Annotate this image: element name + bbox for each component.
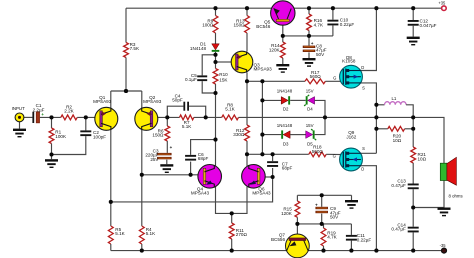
wire D2 to D4 <box>290 99 306 101</box>
wire R9 top lead <box>215 8 217 15</box>
wire Q2 emitter stub <box>141 91 143 108</box>
diode D1 1N4148 <box>212 44 220 52</box>
svg-text:K1058: K1058 <box>342 59 356 64</box>
svg-text:4.7K: 4.7K <box>327 235 337 240</box>
svg-text:5.1K: 5.1K <box>146 231 156 236</box>
svg-text:150Ω: 150Ω <box>233 23 245 28</box>
polarity mark C1 <box>41 112 44 117</box>
node -35 rail/C11 <box>349 249 353 253</box>
svg-text:MPSA43: MPSA43 <box>191 191 210 196</box>
svg-text:1N4148: 1N4148 <box>190 46 207 51</box>
wire R14 leads <box>282 36 284 64</box>
wire R20 right lead <box>405 128 414 130</box>
resistor R1 100K <box>49 128 54 144</box>
wire R20 left lead <box>376 128 387 130</box>
node -35 rail/R4 <box>140 249 144 253</box>
svg-text:120K: 120K <box>269 47 281 52</box>
svg-text:D: D <box>361 167 364 172</box>
wire VAS column middle <box>215 84 217 140</box>
node -35 rail/R11 <box>230 249 234 253</box>
wire Q9 drain <box>346 166 377 251</box>
svg-text:50V: 50V <box>316 52 325 57</box>
svg-text:100K: 100K <box>55 134 67 139</box>
transistor Q6 MPSA43 <box>242 165 266 189</box>
resistor R4 5.1K <box>139 226 144 244</box>
node C9 bottom/R19 <box>320 222 324 226</box>
node output/L1 left <box>374 103 378 107</box>
wire R11 to bottom rail <box>231 239 233 251</box>
node -35 rail/C14 <box>411 249 415 253</box>
wire R21 to C13 <box>412 163 414 184</box>
node D1/Q3 base <box>213 60 217 64</box>
resistor R21 10 ohm <box>411 147 416 163</box>
mosfet Q9 J162 <box>340 148 363 171</box>
wire R5 to bottom rail <box>110 244 112 251</box>
wire C9 bottom lead <box>321 214 323 224</box>
wire R19 to bottom rail <box>323 246 325 251</box>
label Q8 pin S <box>362 85 365 90</box>
wire diode string column <box>261 81 263 154</box>
wire Q4 base row <box>142 174 199 176</box>
label D4 <box>307 106 313 111</box>
svg-text:+35: +35 <box>438 1 446 6</box>
wire C12 ground stub <box>412 26 414 37</box>
transistor Q1 MPSA93 <box>95 107 118 130</box>
node R15/Q7 base <box>295 222 299 226</box>
wire output net horizontal <box>239 116 414 118</box>
capacitor C12 0.047uF <box>408 20 419 26</box>
wire R3 bottom to tail node <box>125 58 127 92</box>
svg-text:D4: D4 <box>307 106 313 111</box>
wire R13 top lead <box>246 8 248 15</box>
svg-text:15V: 15V <box>306 123 314 128</box>
svg-text:D: D <box>361 65 364 70</box>
wire Q7 base row <box>297 223 351 225</box>
capacitor C10 0.22uF <box>327 20 338 26</box>
svg-text:INPUT: INPUT <box>12 106 25 111</box>
node Q1 base/C2 <box>84 115 88 119</box>
resistor R3 7.5K <box>124 43 129 58</box>
svg-text:10Ω: 10Ω <box>418 156 427 161</box>
svg-text:68pF: 68pF <box>198 156 209 161</box>
node output/L1-R20/speaker <box>411 115 415 119</box>
svg-text:270Ω: 270Ω <box>236 232 248 237</box>
resistor R8 5.1K <box>222 115 239 120</box>
label Q9 pin S <box>362 146 365 151</box>
label R14 value <box>269 43 281 52</box>
node Q5 base/R14 <box>281 34 285 38</box>
label R17 value <box>310 70 322 79</box>
wire bias ground row <box>297 194 351 196</box>
wire R19 top lead <box>323 224 325 228</box>
label R1 value <box>55 130 67 139</box>
svg-text:330Ω: 330Ω <box>233 132 245 137</box>
svg-text:15V: 15V <box>306 89 314 94</box>
node D1/C5 top <box>213 53 217 57</box>
wire R6 top lead <box>166 117 168 126</box>
wire speaker feed <box>413 117 444 163</box>
node rail-Q8 drain <box>374 6 378 10</box>
node rail-R13 <box>245 6 249 10</box>
resistor R13 150 ohm <box>245 16 250 34</box>
capacitor C14 0.47uF <box>408 227 419 233</box>
diode D3 1N4148 <box>281 130 290 138</box>
node C5/R10 bottom <box>213 91 217 95</box>
wire C14 to bottom rail <box>412 232 414 250</box>
capacitor C6 68pF <box>185 155 196 161</box>
wire R11 top lead <box>231 213 233 223</box>
wire D5 row right <box>315 117 325 134</box>
node Q2 collector/Q4 base <box>140 173 144 177</box>
wire D4 row right <box>315 100 325 117</box>
wire D3 row left <box>262 134 281 136</box>
label R4 value <box>146 227 156 236</box>
svg-text:2.2µF: 2.2µF <box>33 107 45 112</box>
wire C5 branch bottom <box>202 81 215 93</box>
label R8 value <box>225 102 235 111</box>
svg-text:560Ω: 560Ω <box>312 149 324 154</box>
wire L1 right lead <box>406 105 413 147</box>
resistor R2 2.2K <box>61 115 77 120</box>
node tail R3/Q1/Q2 emitters <box>124 89 128 93</box>
label 8 ohms <box>449 193 463 198</box>
wire C1 to R2 node <box>40 116 61 118</box>
ground below C3 <box>160 164 173 173</box>
wire L1 left lead <box>376 104 384 106</box>
wire R15 bottom lead <box>296 217 298 224</box>
label C13 value <box>391 179 406 188</box>
label Q1 <box>93 95 112 104</box>
capacitor C1 2.2uF <box>32 112 40 124</box>
wire ground stub below R1 node <box>51 155 53 160</box>
wire Q2 collector column <box>141 129 143 226</box>
svg-text:7.5K: 7.5K <box>130 46 140 51</box>
wire input jack ground stub <box>19 122 21 129</box>
resistor R12 330 ohm <box>245 125 250 141</box>
svg-text:J162: J162 <box>346 134 356 139</box>
label D5 <box>307 142 313 147</box>
svg-text:+: + <box>315 202 318 207</box>
wire C7 top lead <box>272 154 274 161</box>
wire D1 cathode down VAS column <box>215 52 217 69</box>
label C1 value <box>33 103 45 112</box>
resistor R17 560 ohm <box>305 79 325 84</box>
node Q4-Q6 emitters/R11 <box>230 211 234 215</box>
svg-text:D3: D3 <box>283 142 289 147</box>
svg-text:G: G <box>333 76 336 81</box>
wire R9 to D1 <box>215 33 217 44</box>
resistor R7 5.1K <box>180 115 194 120</box>
zener D4 15V <box>304 95 315 106</box>
label D2 <box>283 106 289 111</box>
wire R12 to lower gate row <box>246 141 248 154</box>
label R20 value <box>393 134 402 144</box>
svg-text:-35: -35 <box>440 243 447 248</box>
wire R7 to R8 <box>194 116 222 118</box>
svg-text:100Ω: 100Ω <box>202 23 214 28</box>
polarity mark C3 <box>170 145 173 150</box>
svg-text:100pF: 100pF <box>93 135 106 140</box>
wire Q3 base <box>216 61 232 63</box>
svg-text:0.047µF: 0.047µF <box>420 23 437 28</box>
svg-text:G: G <box>333 153 336 158</box>
svg-text:BC556: BC556 <box>271 237 285 242</box>
ground below R1 <box>45 159 58 168</box>
label 1N4148 row2 <box>277 123 293 128</box>
wire C8 top lead <box>308 36 310 46</box>
wire VAS column to Q4 collector <box>215 140 217 166</box>
transistor Q4 MPSA43 <box>198 165 222 189</box>
node rail-R9 <box>213 6 217 10</box>
wire C8 to ground <box>308 52 310 58</box>
terminal -35 <box>442 248 447 253</box>
node C7 top/R18 row <box>271 152 275 156</box>
wire C10 bottom lead <box>332 25 334 36</box>
label 1N4148 row1 <box>277 89 293 94</box>
wire Q8 drain <box>346 8 377 70</box>
svg-text:MPSA43: MPSA43 <box>252 191 271 196</box>
label Q3 <box>254 62 273 71</box>
label Q8 pin D <box>361 65 364 70</box>
wire C3 to ground <box>166 160 168 165</box>
wire C9 top lead <box>321 195 323 207</box>
label D3 <box>283 142 289 147</box>
svg-text:+: + <box>311 41 314 46</box>
wire C7 bottom lead <box>272 168 274 177</box>
wire lower gate row to R18 <box>247 153 309 155</box>
svg-text:5.1K: 5.1K <box>115 231 125 236</box>
label R21 value <box>418 152 427 161</box>
input jack terminal <box>15 113 24 122</box>
diode D2 1N4148 <box>281 96 290 104</box>
wire R16 top lead <box>308 8 310 14</box>
label C2 value <box>93 130 106 139</box>
wire R1 column <box>51 117 53 128</box>
label Q9 <box>346 130 356 139</box>
svg-text:0.22µF: 0.22µF <box>340 22 355 27</box>
wire R6 to C3 <box>166 141 168 153</box>
node output/MOSFET sources <box>374 115 378 119</box>
wire C10 top lead <box>332 8 334 20</box>
svg-text:S: S <box>362 146 365 151</box>
node C6 bottom/Q4 base row <box>189 173 193 177</box>
wire ground row stub <box>351 195 353 200</box>
svg-text:MPSA93: MPSA93 <box>254 67 273 72</box>
capacitor C7 68pF <box>267 161 278 167</box>
node Q6 base/C7 bottom <box>271 175 275 179</box>
svg-text:560Ω: 560Ω <box>310 74 322 79</box>
svg-text:150Ω: 150Ω <box>152 133 164 138</box>
svg-text:L1: L1 <box>391 96 396 101</box>
node R16/C10/C8 <box>307 34 311 38</box>
wire R3 top lead from rail corner <box>125 8 127 42</box>
wire C11 top lead <box>350 224 352 235</box>
ground below input jack <box>13 129 26 138</box>
wire Q5 base lead <box>282 21 284 36</box>
svg-text:1N4148: 1N4148 <box>277 123 293 128</box>
label Q8 <box>342 55 356 64</box>
label Q4 <box>191 186 210 195</box>
node ground row/C9 top <box>320 193 324 197</box>
label R13 value <box>233 18 245 27</box>
wire C11 to bottom rail <box>350 241 352 251</box>
wire C6 bottom lead <box>190 162 192 175</box>
inductor L1 <box>385 102 407 105</box>
label INPUT <box>12 106 25 111</box>
label R10 value <box>219 72 228 82</box>
node rail-C12 <box>411 6 415 10</box>
label R12 value <box>233 128 245 137</box>
wire VAS column to R12 <box>246 81 248 125</box>
speaker 8 ohms <box>440 157 456 185</box>
node feedback R7/C4/R8 <box>204 115 208 119</box>
resistor R16 4.7K <box>307 14 312 31</box>
label 15V row2 <box>306 123 314 128</box>
node rail-R16 <box>307 6 311 10</box>
wire D3 to D5 <box>290 134 306 136</box>
resistor R19 4.7K <box>321 228 326 246</box>
label R5 value <box>115 227 125 236</box>
label Q9 pin G <box>333 153 336 158</box>
resistor R14 120K <box>280 42 285 58</box>
svg-text:5.1K: 5.1K <box>182 124 192 129</box>
svg-text:2.2K: 2.2K <box>64 109 74 114</box>
wire R17 to Q8 gate <box>325 80 343 82</box>
label R6 value <box>152 128 164 137</box>
node rail-C10 <box>331 6 335 10</box>
resistor R5 5.1K <box>108 226 113 244</box>
wire Q4 emitter path <box>216 187 248 214</box>
label -35 <box>440 243 447 248</box>
node R12/Q6 collector/R18 row <box>245 152 249 156</box>
wire C12 top lead <box>412 8 414 20</box>
wire R16 bottom lead <box>308 31 310 36</box>
transistor Q7 BC556 <box>286 234 310 258</box>
label R18 value <box>312 145 324 154</box>
label R9 value <box>202 18 214 27</box>
node gate drive/diode column <box>260 79 264 83</box>
svg-text:25V: 25V <box>150 157 159 162</box>
capacitor C3 220uF <box>157 153 172 159</box>
svg-text:10Ω: 10Ω <box>393 138 402 143</box>
svg-text:0.1µF: 0.1µF <box>185 77 197 82</box>
svg-text:4.7K: 4.7K <box>314 22 324 27</box>
ground below C8 <box>303 58 316 67</box>
wire R18 to Q9 gate <box>326 153 343 155</box>
label R11 value <box>236 228 248 237</box>
svg-text:15K: 15K <box>219 77 228 82</box>
label C10 value <box>340 18 355 27</box>
label 15V row1 <box>306 89 314 94</box>
svg-text:+: + <box>170 145 173 150</box>
label C14 value <box>391 222 406 231</box>
label Q5 <box>256 20 270 29</box>
capacitor C13 0.47uF <box>408 184 419 190</box>
wire C5 branch top <box>202 55 215 76</box>
resistor R18 560 ohm <box>309 152 326 157</box>
svg-text:50pF: 50pF <box>172 98 183 103</box>
polarity mark C9 <box>315 202 318 207</box>
svg-text:MPSA93: MPSA93 <box>93 99 112 104</box>
resistor R10 15K <box>213 69 218 85</box>
ground below C12 <box>407 37 420 46</box>
transistor Q3 MPSA93 <box>231 51 253 73</box>
wire C2 top lead <box>85 117 87 130</box>
wire C13 to midpoint <box>412 189 414 227</box>
label D1 <box>190 42 207 51</box>
wire speaker bottom lead <box>443 181 445 208</box>
ground below R14 <box>276 64 289 73</box>
node Q2 base/R6/R7/C4 <box>165 115 169 119</box>
wire R15 top lead <box>296 195 298 201</box>
label C3 value <box>145 148 159 162</box>
resistor R20 10 ohm <box>388 126 405 131</box>
label C9 value <box>330 206 341 220</box>
svg-text:BC546: BC546 <box>256 24 270 29</box>
node C13-C14 midpoint <box>411 205 415 209</box>
svg-text:S: S <box>362 85 365 90</box>
label C4 value <box>172 93 183 102</box>
wire Q7 base lead <box>296 224 298 238</box>
polarity mark C8 <box>311 41 314 46</box>
resistor R11 270 ohm <box>229 223 234 239</box>
capacitor C8 47uF <box>303 46 316 52</box>
svg-text:120K: 120K <box>281 211 293 216</box>
wire Q8 source <box>346 83 377 153</box>
wire Q2 base to feedback node <box>157 116 180 118</box>
label Q8 pin G <box>333 76 336 81</box>
label C11 value <box>357 233 372 242</box>
label Q7 <box>271 233 285 242</box>
wire R2 to Q1 base <box>77 116 95 118</box>
label R3 value <box>130 42 140 51</box>
label C8 value <box>316 43 327 57</box>
label R7 value <box>182 120 192 129</box>
resistor R15 120K <box>295 201 300 217</box>
label R16 value <box>314 18 324 27</box>
svg-text:0.22µF: 0.22µF <box>357 238 372 243</box>
capacitor C2 100pF <box>80 130 91 136</box>
wire Q3 collector stub <box>246 72 248 81</box>
wire Q6 base stub <box>264 176 272 178</box>
node output/R20 left <box>374 127 378 131</box>
capacitor C4 50pF <box>183 102 189 111</box>
wire Q9 source stub <box>346 152 377 154</box>
label L1 <box>391 96 396 101</box>
svg-text:0.47µF: 0.47µF <box>391 227 406 232</box>
wire Q1 collector column <box>110 129 112 226</box>
ground below speaker <box>438 208 451 217</box>
wire D2 row left <box>262 99 281 101</box>
wire C4 loop right <box>189 106 206 117</box>
svg-text:8 ohms: 8 ohms <box>449 193 463 198</box>
node tail junction <box>124 89 128 93</box>
resistor R6 150 ohm <box>165 126 170 141</box>
node Q3 collector/R17 row <box>245 79 249 83</box>
svg-text:1N4148: 1N4148 <box>277 89 293 94</box>
label C6 value <box>198 152 209 161</box>
label R15 value <box>281 207 293 216</box>
label C7 value <box>282 161 293 170</box>
label Q2 <box>143 95 162 104</box>
capacitor C11 0.22uF <box>346 235 357 241</box>
node -35 rail/Q9 drain <box>374 249 378 253</box>
wire R13 to Q3 emitter <box>246 33 248 52</box>
transistor Q2 MPSA93 <box>135 107 158 130</box>
capacitor C9 47uF <box>315 207 328 213</box>
transistor Q5 BC546 <box>271 1 295 25</box>
terminal +35 <box>442 6 447 11</box>
